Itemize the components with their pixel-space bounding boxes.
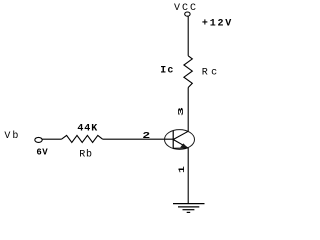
ground bar 3 bbox=[183, 209, 195, 211]
svg-text:Vb: Vb bbox=[4, 130, 20, 142]
pin 2 bbox=[142, 131, 150, 141]
transistor Q1 emitter bottom segment bbox=[173, 147, 188, 149]
ground bar 2 bbox=[178, 206, 199, 208]
svg-text:1: 1 bbox=[177, 166, 186, 173]
svg-text:3: 3 bbox=[177, 107, 185, 116]
ground bar 1 bbox=[173, 203, 205, 205]
resistor Rc bbox=[184, 56, 192, 88]
wire VCC to Rc bbox=[187, 17, 189, 56]
pin 1 bbox=[177, 166, 186, 173]
svg-text:Ic: Ic bbox=[160, 66, 174, 77]
transistor Q1 emitter arrowhead bbox=[180, 143, 188, 148]
wire Rc to collector bbox=[187, 88, 189, 132]
svg-text:Rc: Rc bbox=[202, 68, 221, 79]
transistor Q1 base bar bbox=[172, 131, 174, 149]
resistor Rb bbox=[62, 135, 103, 142]
pin 3 bbox=[177, 107, 185, 116]
svg-text:2: 2 bbox=[142, 131, 150, 141]
svg-text:Rb: Rb bbox=[79, 148, 93, 160]
transistor Q1 body ellipse bbox=[165, 130, 195, 150]
svg-text:+12V: +12V bbox=[202, 19, 233, 30]
wire Vb terminal to Rb bbox=[42, 138, 61, 140]
transistor Q1 collector diagonal bbox=[173, 131, 188, 139]
svg-text:44K: 44K bbox=[77, 123, 98, 134]
ground bar 4 bbox=[187, 211, 191, 213]
svg-text:6V: 6V bbox=[36, 148, 48, 158]
terminal Vb bbox=[35, 137, 42, 142]
wire Rb to base bbox=[103, 138, 174, 140]
transistor Q1 emitter diagonal bbox=[173, 140, 187, 148]
wire emitter down bbox=[187, 148, 189, 204]
terminal VCC bbox=[185, 12, 190, 16]
